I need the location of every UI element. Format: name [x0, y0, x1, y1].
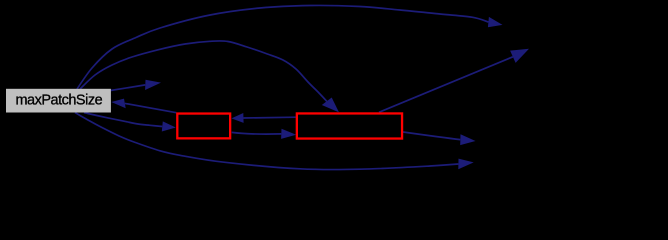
svg-text:maxPatchSize: maxPatchSize	[15, 93, 102, 109]
